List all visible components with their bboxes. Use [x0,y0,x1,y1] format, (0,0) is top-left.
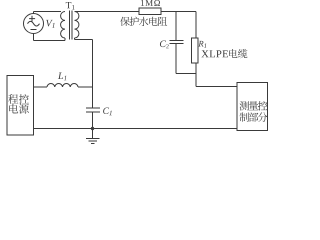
capacitor C1 bottom plate [86,111,100,113]
transformer core line 1 [69,11,71,40]
ground stub [92,129,94,139]
inductor L1 coil bumps [47,84,78,87]
wire: top rail resistor to corner [161,11,196,13]
transformer secondary winding [75,12,79,39]
wire: R1 branch vertical top [195,12,197,39]
wire: power box to inductor L1 [34,86,48,88]
AC source plus mark [29,16,35,22]
resistor 1M box (protective water resistor) [139,8,161,15]
label V1 (AC source) [46,20,53,27]
capacitor C2 top plate [170,40,184,42]
wire: main vertical lower section below C1 [92,112,94,129]
hanzi label 保护水电阻 (protective water resistor) [120,17,130,26]
transformer core line 2 [71,11,73,40]
hanzi label 电缆 (cable) [229,49,237,58]
label T1 (transformer) [66,2,72,8]
wire: R1 bottom vertical [195,63,197,87]
wire: main vertical upper section [92,40,94,109]
label 1M ohm [141,0,144,6]
hanzi box text 测量控 / 制部分 (measurement & control section) [240,101,249,110]
label C2 [160,41,166,48]
wire: secondary winding bottom stub [74,38,76,40]
AC source V1 circle [24,14,44,34]
ground bar 2 [89,140,98,142]
wire: inductor to main vertical junction [78,86,93,88]
label L1 (filter inductor) [58,72,63,79]
capacitor C2 bottom plate [170,43,184,45]
ground bar 3 [91,143,95,145]
wire: AC source bottom stub [33,33,35,41]
box: programmable power supply 程控电源 [7,76,34,136]
wire: primary winding bottom stub [64,38,66,41]
wire: AC source top stub [33,12,35,15]
wire: bottom ground rail [34,128,238,130]
wire: top rail secondary to 1M resistor [75,11,140,13]
wire: C2 branch vertical top [175,12,177,41]
wire: C2 bottom tie to R1 vertical [176,73,196,75]
wire: C2 branch vertical bottom [175,44,177,74]
label R1 [198,41,203,47]
wire: primary bottom loop [34,40,66,42]
hanzi box text 程控 / 电源 (programmable power) [8,94,18,104]
label C1 (filter capacitor) [103,108,109,114]
capacitor C1 top plate [86,107,100,109]
transformer primary winding [61,12,65,39]
AC source sine wave [28,21,40,26]
wire: secondary bottom horizontal to main vertical [75,39,93,41]
AC source minus mark [31,29,37,31]
box: measurement & control 测量控制部分 [237,83,268,131]
label XLPE [201,50,208,57]
resistor R1 box (XLPE cable sample) [192,38,199,63]
wire: R1 to measurement box [196,86,237,88]
wire: top rail from AC source to transformer primary [34,11,62,13]
ground bar 1 [86,138,100,140]
junction dot at ground node [91,127,94,130]
